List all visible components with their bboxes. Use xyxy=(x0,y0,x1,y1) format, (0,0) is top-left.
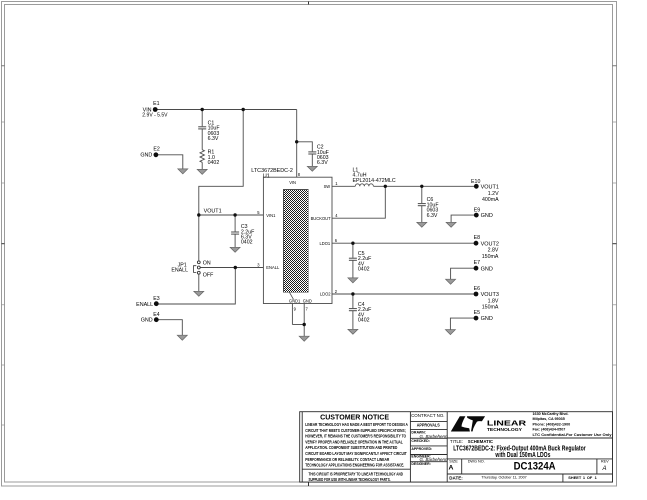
capacitor C6 xyxy=(418,204,426,206)
capacitor C3 xyxy=(231,232,239,234)
svg-text:OFF: OFF xyxy=(203,273,214,279)
svg-text:SCHEMATIC: SCHEMATIC xyxy=(468,439,493,444)
terminal E9 GND xyxy=(474,207,493,219)
svg-text:1.2V: 1.2V xyxy=(488,191,499,197)
wire L1 to E10 VOUT1 rail xyxy=(373,185,476,187)
svg-text:LTC Confidential-For Customer: LTC Confidential-For Customer Use Only xyxy=(533,433,613,437)
svg-text:Phone: (408)432-1900: Phone: (408)432-1900 xyxy=(533,422,571,426)
junction node C4 tap xyxy=(351,292,354,295)
ground below JP1 OFF xyxy=(194,291,204,296)
svg-text:A: A xyxy=(601,466,606,472)
svg-text:E2: E2 xyxy=(153,147,160,153)
border zone tick bottom xyxy=(308,482,310,486)
svg-text:APPROVALS: APPROVALS xyxy=(417,422,440,427)
Linear Technology logo xyxy=(451,416,527,432)
svg-text:ENALL: ENALL xyxy=(136,302,153,308)
ground below E5 wire xyxy=(445,330,455,335)
svg-text:VOUT2: VOUT2 xyxy=(481,241,499,247)
terminal E10 VOUT1 xyxy=(471,179,499,203)
junction node ENALL tap xyxy=(234,266,237,269)
wire C6 lower lead xyxy=(421,206,423,223)
terminal E5 GND xyxy=(474,310,493,322)
svg-text:1630 McCarthy Blvd.: 1630 McCarthy Blvd. xyxy=(533,412,569,416)
contract no / approvals column xyxy=(411,413,448,466)
junction node VOUT1 xyxy=(197,213,200,216)
wire C5 lower lead xyxy=(352,260,354,278)
wire VIN to VIN1 link xyxy=(199,110,243,216)
svg-text:LINEAR: LINEAR xyxy=(487,418,527,427)
junction node C6 tap xyxy=(420,185,423,188)
ground below C3 xyxy=(230,247,240,252)
svg-text:6.3V: 6.3V xyxy=(427,213,438,219)
wire E5 to ground xyxy=(450,318,476,330)
terminal E1 VIN xyxy=(142,101,168,118)
border minor ticks right xyxy=(613,122,617,365)
svg-text:BUCKOUT: BUCKOUT xyxy=(311,216,332,221)
svg-text:CUSTOMER NOTICE: CUSTOMER NOTICE xyxy=(320,415,389,422)
capacitor C5 xyxy=(349,258,357,260)
svg-text:TITLE:: TITLE: xyxy=(450,439,463,444)
wire C3 upper lead xyxy=(234,215,236,232)
svg-text:E1: E1 xyxy=(153,101,160,107)
svg-text:APPROVED:: APPROVED: xyxy=(411,447,432,451)
svg-text:2.9V - 5.5V: 2.9V - 5.5V xyxy=(142,113,168,119)
svg-text:EPL2014-472MLC: EPL2014-472MLC xyxy=(353,178,396,184)
wire VOUT1 down to JP1 ON xyxy=(198,215,200,261)
svg-text:CONTRACT NO.: CONTRACT NO. xyxy=(411,413,444,418)
wire E2 to ground xyxy=(156,155,183,169)
junction node C3 tap xyxy=(233,213,236,216)
svg-text:Thursday, October 11, 2007: Thursday, October 11, 2007 xyxy=(481,476,526,480)
svg-text:VOUT1: VOUT1 xyxy=(481,184,499,190)
jumper JP1 ENALL xyxy=(194,261,201,274)
svg-text:SHEET: SHEET xyxy=(568,475,582,480)
border zone tick right upper xyxy=(613,65,617,67)
svg-text:VIN: VIN xyxy=(289,180,296,185)
svg-text:6.3V: 6.3V xyxy=(317,160,328,166)
svg-text:1.8V: 1.8V xyxy=(488,298,499,304)
wire VIN drop to U1 VIN pin 8 xyxy=(296,110,298,178)
wire C1 upper lead xyxy=(201,110,203,127)
logo address xyxy=(533,412,613,437)
terminal E6 VOUT3 xyxy=(474,286,499,311)
svg-text:ON: ON xyxy=(203,260,211,266)
svg-text:G. Barbehenn: G. Barbehenn xyxy=(420,434,449,439)
svg-text:CIRCUIT THAT MEETS CUSTOMER-SU: CIRCUIT THAT MEETS CUSTOMER-SUPPLIED SPE… xyxy=(305,428,406,433)
svg-text:ENALL: ENALL xyxy=(266,265,280,270)
svg-text:THIS CIRCUIT IS PROPRIETARY TO: THIS CIRCUIT IS PROPRIETARY TO LINEAR TE… xyxy=(309,471,404,476)
wire E7 to ground xyxy=(451,268,476,279)
svg-text:E7: E7 xyxy=(474,260,481,266)
svg-text:VOUT3: VOUT3 xyxy=(481,292,499,298)
svg-text:APPLICATION. COMPONENT SUBSTIT: APPLICATION. COMPONENT SUBSTITUTION AND … xyxy=(305,445,397,450)
svg-text:GND: GND xyxy=(481,213,493,219)
wire E4 to ground xyxy=(156,320,182,336)
svg-text:HOWEVER, IT REMAINS THE CUSTOM: HOWEVER, IT REMAINS THE CUSTOMER'S RESPO… xyxy=(305,434,406,439)
ground below C4 xyxy=(348,329,358,334)
svg-text:Fax: (408)434-0507: Fax: (408)434-0507 xyxy=(533,428,566,432)
svg-text:0402: 0402 xyxy=(358,267,370,273)
wire R1 to ground xyxy=(201,162,203,169)
wire C5 upper lead xyxy=(352,243,354,258)
svg-text:LDO2: LDO2 xyxy=(320,292,331,297)
wire C2 lower lead xyxy=(311,154,313,166)
svg-text:TECHNOLOGY: TECHNOLOGY xyxy=(487,427,522,432)
U1 pin numbers xyxy=(257,172,338,312)
svg-text:with Dual 150mA LDOs: with Dual 150mA LDOs xyxy=(495,452,551,459)
junction node on VIN rail at C1 xyxy=(201,108,204,111)
ground below E9 wire xyxy=(446,222,456,227)
svg-text:E3: E3 xyxy=(153,296,160,302)
junction node U1 gnd join xyxy=(303,323,306,326)
U1 reference label LTC3672BEDC-2 xyxy=(251,168,293,179)
svg-text:150mA: 150mA xyxy=(482,254,499,260)
ground below C5 xyxy=(348,278,358,283)
capacitor C4 xyxy=(349,309,357,311)
capacitor C1 xyxy=(198,127,206,129)
terminal E2 GND xyxy=(140,147,160,159)
ground below E7 wire xyxy=(446,279,456,284)
svg-text:OF: OF xyxy=(587,475,593,480)
wire C2 branch xyxy=(297,142,313,152)
terminal E7 GND xyxy=(474,260,493,272)
svg-text:150mA: 150mA xyxy=(482,305,499,311)
svg-text:GND: GND xyxy=(481,316,493,322)
svg-text:DATE:: DATE: xyxy=(449,475,463,480)
size / dwg no / rev row xyxy=(448,460,609,473)
svg-text:0402: 0402 xyxy=(208,160,220,166)
svg-text:E9: E9 xyxy=(474,207,481,213)
wire JP1 OFF to ground xyxy=(198,274,200,291)
junction node C5 tap xyxy=(351,242,354,245)
date / sheet row xyxy=(449,475,597,480)
svg-text:E10: E10 xyxy=(471,179,480,185)
svg-text:SUPPLIED FOR USE WITH LINEAR T: SUPPLIED FOR USE WITH LINEAR TECHNOLOGY … xyxy=(309,477,391,482)
wire C1 to R1 xyxy=(201,129,203,150)
svg-text:LINEAR TECHNOLOGY HAS MADE A B: LINEAR TECHNOLOGY HAS MADE A BEST EFFORT… xyxy=(305,422,408,427)
svg-text:LDO1: LDO1 xyxy=(319,241,330,246)
border zone tick left upper xyxy=(2,65,5,67)
svg-text:CIRCUIT BOARD LAYOUT MAY SIGNI: CIRCUIT BOARD LAYOUT MAY SIGNIFICANTLY A… xyxy=(305,451,407,456)
wire BUCKOUT pin 4 loop xyxy=(332,186,385,218)
wire JP1 common to ENALL pin 3 xyxy=(200,267,263,269)
ground below C6 xyxy=(417,222,427,227)
border zone tick top xyxy=(308,2,310,5)
svg-text:0402: 0402 xyxy=(241,240,253,246)
svg-text:SIZE: SIZE xyxy=(449,460,458,464)
wire SW pin 1 to L1 xyxy=(332,185,355,187)
U1 pin names xyxy=(266,180,331,304)
svg-text:VERIFY PROPER AND RELIABLE OPE: VERIFY PROPER AND RELIABLE OPERATION IN … xyxy=(305,439,403,444)
inductor L1 xyxy=(355,184,373,186)
wire LDO2 pin 2 to E6 xyxy=(332,293,476,295)
wire C3 lower lead xyxy=(234,234,236,247)
svg-text:6.3V: 6.3V xyxy=(208,136,219,142)
svg-text:Milpitas, CA 95035: Milpitas, CA 95035 xyxy=(533,417,565,421)
svg-text:PERFORMANCE OR RELIABILITY. CO: PERFORMANCE OR RELIABILITY. CONTACT LINE… xyxy=(305,457,390,462)
ground below C2 xyxy=(307,166,317,171)
junction node on VIN rail at VIN1 link xyxy=(242,108,245,111)
svg-text:SW: SW xyxy=(324,184,331,189)
border zone tick right mid xyxy=(613,243,617,245)
svg-text:CHECKED:: CHECKED: xyxy=(411,439,429,443)
svg-text:GND1: GND1 xyxy=(289,299,301,304)
svg-text:GND: GND xyxy=(141,318,153,324)
svg-text:E5: E5 xyxy=(474,310,481,316)
ground below E2 xyxy=(178,169,188,174)
wire U1 GND pin 7 stub xyxy=(303,304,305,325)
wire C4 lower lead xyxy=(352,311,354,330)
svg-text:GND: GND xyxy=(481,266,493,272)
IC U1 LTC3672BEDC-2 body xyxy=(263,177,332,303)
svg-text:G. Barbehenn: G. Barbehenn xyxy=(420,457,449,462)
wire U1 GND1 pin 9 stub xyxy=(291,304,293,325)
svg-text:E8: E8 xyxy=(474,235,481,241)
wire VIN top rail E1 to corner xyxy=(155,109,297,111)
resistor R1 xyxy=(200,150,204,163)
svg-text:A: A xyxy=(448,465,453,472)
junction node C2 tap xyxy=(295,140,298,143)
terminal E3 ENALL xyxy=(136,296,160,308)
wire E9 to ground xyxy=(451,215,476,222)
svg-text:VOUT1: VOUT1 xyxy=(204,208,222,214)
capacitor C2 xyxy=(308,152,316,154)
ground below R1 xyxy=(197,169,207,174)
svg-text:DWG NO.: DWG NO. xyxy=(468,460,485,464)
svg-text:REV: REV xyxy=(601,460,609,464)
svg-text:LTC3672BEDC-2: LTC3672BEDC-2 xyxy=(251,168,293,174)
ground below E4 xyxy=(177,335,187,340)
svg-text:TECHNOLOGY APPLICATIONS ENGINE: TECHNOLOGY APPLICATIONS ENGINEERING FOR … xyxy=(305,462,404,467)
wire C4 upper lead xyxy=(352,294,354,308)
svg-text:DESIGNER:: DESIGNER: xyxy=(411,462,430,466)
svg-text:GND: GND xyxy=(303,299,312,304)
ground below U1 GND pins xyxy=(299,336,309,341)
wire LDO1 pin 6 to E8 xyxy=(332,242,476,244)
title row xyxy=(450,439,586,459)
svg-text:0402: 0402 xyxy=(358,318,370,324)
wire GND join to ground xyxy=(303,325,305,337)
wire ENALL branch down to E3 xyxy=(156,268,235,305)
terminal E8 VOUT2 xyxy=(474,235,499,260)
svg-text:U1: U1 xyxy=(263,174,270,180)
svg-text:VIN1: VIN1 xyxy=(266,213,276,218)
svg-text:400mA: 400mA xyxy=(482,197,499,203)
border minor ticks left xyxy=(2,122,5,425)
wire GND stub join xyxy=(292,324,304,326)
wire VOUT1 / VIN1 pin 5 xyxy=(199,214,264,216)
svg-text:ENALL: ENALL xyxy=(171,268,188,274)
svg-text:DC1324A: DC1324A xyxy=(514,461,556,473)
border zone tick left mid xyxy=(2,243,5,245)
svg-text:E6: E6 xyxy=(474,286,481,292)
customer notice text xyxy=(305,415,408,482)
junction node L1 out BUCKOUT tap xyxy=(384,185,387,188)
terminal E4 GND xyxy=(141,312,160,324)
svg-text:E4: E4 xyxy=(153,312,160,318)
svg-text:2.8V: 2.8V xyxy=(488,248,499,254)
svg-text:GND: GND xyxy=(140,153,152,159)
wire C6 upper lead xyxy=(421,186,423,203)
